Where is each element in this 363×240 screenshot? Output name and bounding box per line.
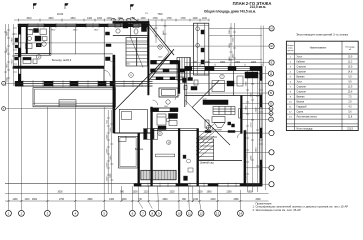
svg-text:И: И — [271, 27, 273, 31]
svg-text:Кабинет: Кабинет — [297, 62, 307, 64]
svg-text:Балкон: Балкон — [297, 102, 305, 104]
svg-text:1960: 1960 — [206, 192, 212, 194]
section flags — [33, 4, 133, 11]
svg-text:1500: 1500 — [205, 62, 211, 64]
tower right wall / bay base — [148, 21, 150, 95]
rotated dimension texts — [7, 27, 258, 181]
svg-text:2. Экспликацию полов см. лист: 2. Экспликацию полов см. лист 45-АР — [253, 208, 301, 212]
svg-text:2000: 2000 — [251, 62, 257, 64]
lower wing bottom wall — [134, 184, 262, 186]
svg-text:1460: 1460 — [109, 199, 115, 201]
svg-text:1200: 1200 — [192, 18, 198, 20]
svg-text:Бильярд. зал: Бильярд. зал — [52, 59, 67, 62]
svg-text:1800: 1800 — [235, 62, 241, 64]
right block top dimension chain — [190, 64, 262, 66]
svg-text:Е: Е — [271, 61, 273, 65]
svg-text:2090: 2090 — [255, 199, 261, 201]
top wall of upper-left block — [18, 24, 149, 26]
svg-text:213,5: 213,5 — [347, 128, 353, 130]
bottom window band of upper-left block — [15, 81, 153, 86]
svg-text:2320: 2320 — [169, 192, 175, 194]
top chain numbers — [26, 14, 207, 20]
svg-text:2820: 2820 — [162, 199, 168, 201]
svg-text:13,2: 13,2 — [348, 62, 353, 64]
hall south wall with window — [151, 61, 179, 64]
vertical grid lines yard — [9, 86, 105, 210]
svg-text:м²: м² — [349, 48, 352, 51]
svg-text:Итого площадь: Итого площадь — [297, 128, 314, 130]
svg-text:2790: 2790 — [59, 199, 65, 201]
main staircase (horizontal treads) — [126, 36, 148, 68]
svg-text:12: 12 — [199, 211, 203, 215]
room labels — [36, 45, 224, 165]
chimney shaft — [194, 23, 209, 75]
left wall of upper-left block — [18, 24, 20, 86]
window tick marks top wall — [28, 23, 133, 28]
svg-text:Спальня: Спальня — [212, 129, 222, 132]
secondary stair (vertical treads) — [177, 58, 191, 81]
svg-text:1640: 1640 — [117, 18, 123, 20]
title block — [204, 1, 272, 13]
yard long line — [5, 183, 134, 185]
hall east wall black — [178, 61, 180, 94]
right outer dim line — [265, 66, 267, 190]
small fixtures cluster right of hall — [183, 78, 199, 91]
svg-text:1200: 1200 — [97, 18, 103, 20]
left vertical dimension chain — [4, 24, 18, 86]
svg-text:Балкон: Балкон — [135, 148, 144, 151]
lower stair flight (diagonal hatch) — [196, 124, 214, 158]
corridor wall — [151, 69, 185, 72]
guest room furniture under kitchen — [23, 58, 37, 64]
lower-wing left vertical dimension chain — [107, 110, 114, 194]
bay window triangle — [148, 23, 174, 81]
door arcs — [104, 61, 242, 142]
svg-text:1240: 1240 — [193, 199, 199, 201]
interior vertical wall x=50 — [50, 27, 51, 56]
svg-text:64,6: 64,6 — [67, 59, 72, 62]
tower left wall — [113, 55, 115, 133]
svg-text:Холл: Холл — [297, 57, 303, 59]
hall lower wall — [151, 77, 185, 80]
svg-text:14,8: 14,8 — [348, 72, 353, 74]
svg-text:2380: 2380 — [233, 199, 239, 201]
svg-text:Ванная: Ванная — [297, 97, 306, 99]
svg-text:2280: 2280 — [226, 192, 232, 194]
svg-text:10: 10 — [177, 211, 181, 215]
axis circle labels — [3, 27, 273, 216]
svg-text:Спальня: Спальня — [297, 92, 307, 94]
bedroom right block bed — [212, 72, 258, 92]
svg-text:Ванная: Ванная — [297, 77, 306, 79]
svg-text:Д: Д — [270, 72, 272, 76]
svg-text:14: 14 — [239, 211, 243, 215]
svg-text:1200: 1200 — [106, 18, 112, 20]
lower wing interior walls — [114, 96, 260, 187]
wardrobe cells lower wing — [144, 129, 158, 140]
bottom axis circles — [6, 210, 244, 216]
wing wall x=138.5 — [138, 133, 140, 186]
bottom dim numbers — [12, 192, 261, 201]
center vertical dim chain above bay — [155, 20, 167, 43]
svg-text:Ж: Ж — [270, 44, 273, 48]
svg-text:2600: 2600 — [32, 199, 38, 201]
svg-text:15,8: 15,8 — [348, 92, 353, 94]
terrace below billiard room — [33, 88, 116, 107]
left axis circles — [2, 81, 6, 110]
svg-text:1400: 1400 — [87, 18, 93, 20]
svg-text:1210: 1210 — [143, 192, 149, 194]
vertical grid stubs lower wing — [122, 186, 241, 210]
svg-text:2%: 2% — [145, 13, 148, 15]
svg-text:Наименование: Наименование — [310, 47, 327, 50]
corridor doorway wall x=104 — [104, 27, 111, 66]
dark marks right block — [205, 120, 235, 128]
bottom dimension lines — [5, 194, 269, 201]
interior wall horizontal (billiard room top-left) — [15, 27, 113, 56]
svg-text:Экспликация помещений 2-го эта: Экспликация помещений 2-го этажа — [296, 32, 348, 36]
right block top wall with windows — [185, 67, 262, 71]
svg-text:1800: 1800 — [247, 192, 253, 194]
svg-text:Лестничная клетка: Лестничная клетка — [297, 117, 318, 119]
svg-text:1290: 1290 — [12, 199, 18, 201]
svg-text:1500: 1500 — [132, 192, 138, 194]
svg-text:1310: 1310 — [24, 199, 30, 201]
right vertical dimension chains — [246, 71, 259, 193]
svg-text:1800: 1800 — [220, 62, 226, 64]
notes — [253, 201, 349, 212]
interior dim texts — [29, 30, 208, 108]
svg-text:2200: 2200 — [197, 192, 203, 194]
svg-text:Спальня: Спальня — [297, 67, 307, 69]
top dimension chain — [14, 19, 209, 22]
thick interior wall y=67 — [13, 66, 104, 69]
left bay of right block (diagonals) — [185, 81, 230, 146]
svg-text:2810: 2810 — [48, 18, 54, 20]
svg-text:11,8: 11,8 — [348, 117, 353, 119]
svg-text:В: В — [270, 91, 272, 95]
svg-text:щения: щения — [287, 50, 293, 52]
mid-room details — [156, 140, 194, 180]
svg-text:13,9: 13,9 — [348, 87, 353, 89]
left balcony of lower wing — [118, 136, 137, 168]
exposition table — [286, 32, 358, 130]
right block right wall — [260, 67, 262, 187]
svg-text:Сауна: Сауна — [297, 112, 304, 114]
horizontal axis lines to right circles — [6, 26, 269, 185]
right block interior walls — [185, 71, 262, 108]
furniture and fixtures — [23, 21, 258, 186]
svg-text:13: 13 — [216, 211, 220, 215]
bottom balcony railing hatch — [141, 170, 176, 180]
tower top wall — [113, 21, 149, 23]
svg-text:Общая площадь дома 743,5 кв.м: Общая площадь дома 743,5 кв.м. — [204, 9, 256, 13]
svg-text:3010: 3010 — [26, 18, 32, 20]
svg-text:2230: 2230 — [210, 199, 216, 201]
svg-text:1700: 1700 — [152, 18, 158, 20]
dimension numbers — [12, 14, 261, 201]
svg-text:7500: 7500 — [157, 14, 163, 16]
svg-text:1700: 1700 — [180, 18, 186, 20]
lower bedroom furniture — [157, 100, 178, 130]
hall table — [159, 88, 178, 97]
svg-text:15,9: 15,9 — [348, 67, 353, 69]
window tick marks right wall — [259, 74, 263, 170]
porch arc vents on top wall — [111, 13, 149, 30]
svg-text:Спальня: Спальня — [297, 72, 307, 74]
kitchen shaft wall — [26, 27, 28, 54]
svg-text:2890: 2890 — [87, 199, 93, 201]
window tick marks bottom band — [23, 80, 142, 87]
svg-text:1500: 1500 — [130, 18, 136, 20]
wc cluster in tower — [113, 21, 148, 35]
svg-text:1100: 1100 — [202, 18, 208, 20]
kitchen corner cluster — [26, 29, 48, 49]
svg-text:2810: 2810 — [70, 18, 76, 20]
svg-text:Спальня: Спальня — [297, 87, 307, 89]
svg-text:10,9: 10,9 — [348, 57, 353, 59]
long roof diagonal — [114, 52, 172, 111]
svg-text:Площадь: Площадь — [345, 46, 355, 48]
right block top dims — [193, 62, 257, 64]
svg-text:11030: 11030 — [57, 14, 64, 16]
svg-text:Холл: Холл — [297, 82, 303, 84]
svg-text:Гардероб: Гардероб — [297, 107, 308, 109]
svg-text:3000: 3000 — [57, 192, 63, 194]
right axis circles — [268, 26, 274, 187]
svg-text:1700: 1700 — [166, 18, 172, 20]
svg-text:11: 11 — [188, 211, 191, 215]
axis grid and dimensions — [2, 19, 275, 217]
vertical wall x=104 between billiard and hall — [103, 66, 105, 81]
wardrobe row right block — [203, 100, 242, 128]
svg-text:1300: 1300 — [140, 18, 146, 20]
window tick marks wing bottom wall — [141, 183, 254, 187]
stair right-block (horizontal treads) — [199, 139, 214, 160]
shaft-right vertical dim chain — [230, 23, 237, 66]
room box lower wing — [119, 109, 147, 133]
svg-text:1000: 1000 — [121, 199, 127, 201]
svg-text:Зимний сад: Зимний сад — [200, 162, 214, 165]
hall partition wall — [151, 108, 178, 112]
